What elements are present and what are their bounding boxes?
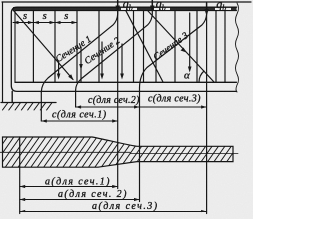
load arrow qb3 <box>206 3 208 13</box>
dimension line c section 1 <box>41 120 117 122</box>
ground line <box>1 102 56 104</box>
section line 3 <box>140 10 207 88</box>
section 1 reference drop <box>40 92 42 121</box>
section 3 reference drop <box>139 88 141 202</box>
beam centerline <box>0 151 130 153</box>
section line 2 <box>76 10 153 90</box>
support pedestal <box>11 91 13 102</box>
dimension line c section 2 <box>76 106 140 108</box>
interior load arrow at node V4 <box>101 42 103 76</box>
section line 1 <box>41 10 117 92</box>
vertical member V2 <box>54 11 56 83</box>
diagonal D1 with arrowhead <box>13 10 73 80</box>
section 3 top reference drop <box>206 7 208 214</box>
dimension line a section 1 <box>20 186 118 188</box>
angle alpha arc <box>199 71 204 82</box>
support axis reference drop <box>19 137 21 214</box>
diagonal D3 <box>148 11 214 82</box>
vertical member V3 <box>76 11 78 83</box>
break line <box>236 3 239 92</box>
beam profile outline <box>3 137 234 167</box>
section 1 top reference drop <box>117 7 119 189</box>
vertical member V5b <box>143 11 145 83</box>
dimension line a section 2 <box>20 199 140 201</box>
vertical member V5 <box>133 11 135 83</box>
vertical member V9 <box>215 11 217 83</box>
truss outer chord outline <box>11 7 236 91</box>
ground hatching <box>3 103 53 111</box>
vertical member V7 <box>174 11 176 83</box>
interior load arrow at node V2 <box>58 62 60 76</box>
paper noise overlay <box>0 0 1 1</box>
dimension line c section 3 <box>140 106 207 108</box>
diagonal D2 <box>126 11 163 82</box>
interior load arrow at node V3 <box>80 48 82 82</box>
truss bottom chord inner line <box>15 81 237 83</box>
dimension line a section 3 <box>20 211 207 213</box>
load arrow qb2 <box>151 1 153 10</box>
arrowhead on diagonal D3 <box>181 48 187 53</box>
beam hatching <box>0 135 258 169</box>
vertical member V4 <box>98 11 100 83</box>
truss top chord inner line <box>15 10 237 12</box>
vertical member V10 <box>224 11 226 83</box>
section 2 reference drop <box>75 90 77 107</box>
load arrow qb1 <box>117 1 119 10</box>
top reference line <box>2 1 251 3</box>
vertical member V6 <box>155 11 157 83</box>
s dimension line <box>13 22 77 24</box>
interior load arrow at node ref1 <box>121 44 123 76</box>
truss top chord band fill <box>13 7 237 10</box>
truss end post inner line <box>14 11 16 83</box>
interior load arrow at node V8 <box>189 13 191 69</box>
left border line <box>2 2 4 102</box>
vertical member V8 <box>196 11 198 83</box>
vertical member V1 <box>32 11 34 83</box>
